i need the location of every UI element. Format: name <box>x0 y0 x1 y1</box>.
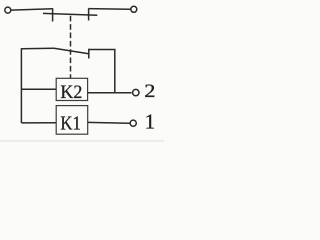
terminal circle 1 <box>130 120 136 126</box>
svg-text:K2: K2 <box>60 82 82 103</box>
contact post right <box>88 8 90 20</box>
svg-text:1: 1 <box>145 110 156 134</box>
coil box K2 <box>56 78 87 100</box>
terminal circle top-left <box>5 7 11 13</box>
wire K2 to terminal 2 <box>88 92 132 94</box>
wire left bus top <box>21 47 54 50</box>
wire stub to K2 <box>21 88 56 90</box>
wire from middle post <box>89 50 115 93</box>
terminal circle 2 <box>133 89 139 95</box>
contact post tick left <box>52 8 54 21</box>
terminal circle top-right <box>131 6 137 12</box>
wire stub to K1 <box>21 122 56 124</box>
left bus vertical <box>20 48 22 123</box>
disconnect bridge bar <box>43 13 97 15</box>
wire top-left <box>11 9 53 10</box>
coil box K1 <box>56 106 87 135</box>
wire top-right <box>89 8 131 11</box>
wire K1 to terminal 1 <box>88 121 130 124</box>
mechanical linkage dashed line <box>70 16 72 79</box>
switch blade <box>54 48 90 54</box>
svg-text:2: 2 <box>144 81 155 102</box>
svg-text:K1: K1 <box>60 113 81 135</box>
scan artifact band bottom <box>0 140 164 142</box>
contact post middle <box>88 49 90 59</box>
